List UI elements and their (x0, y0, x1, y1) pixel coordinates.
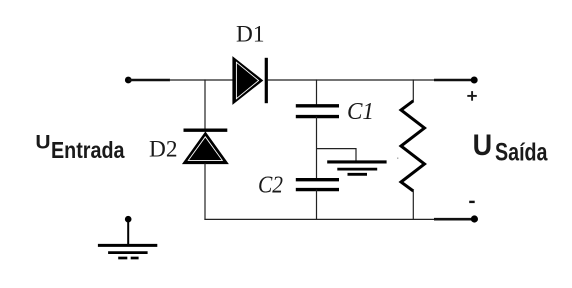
node: input terminal dot (125, 77, 132, 84)
node: output − terminal (471, 215, 478, 222)
capacitor C2 (296, 180, 339, 190)
label U_Saída (473, 129, 549, 167)
capacitor C1 (296, 106, 339, 117)
wire: D2 anode to bottom rail (204, 163, 206, 220)
wire: output lead bottom (thick) (434, 218, 474, 221)
ground: input reference (bottom left) (98, 216, 157, 258)
wire: capacitor branch from top rail (316, 79, 318, 104)
stray speck artifact (397, 158, 398, 159)
wire: bottom rail (204, 218, 435, 220)
svg-text:C2: C2 (258, 173, 283, 199)
svg-text:Saída: Saída (495, 139, 548, 167)
wire: resistor bottom lead (412, 191, 414, 220)
wire: mid ground connector (317, 149, 357, 161)
wire: C1 to C2 (316, 117, 318, 179)
wire: C2 to bottom rail (316, 190, 318, 220)
node: output + terminal (471, 77, 478, 84)
diode D1 (233, 58, 266, 103)
svg-text:U: U (473, 129, 493, 162)
label U_Entrada (35, 132, 124, 164)
wire: top rail, input to D1 anode (169, 79, 234, 81)
resistor R (load) (401, 101, 425, 191)
diode D2 (184, 130, 228, 163)
wire: D2 branch from top rail (204, 79, 206, 128)
svg-text:D1: D1 (236, 22, 265, 47)
label − (469, 201, 475, 203)
wire: resistor top lead (412, 79, 414, 101)
wire: input lead (thick) (128, 79, 170, 82)
svg-text:Entrada: Entrada (51, 137, 125, 163)
wire: top rail, D1 cathode to output (268, 79, 436, 81)
wire: output lead top (thick) (434, 79, 474, 82)
label + (467, 91, 477, 101)
svg-text:U: U (35, 132, 50, 154)
svg-text:C1: C1 (347, 99, 374, 125)
ground: mid reference (327, 162, 386, 174)
svg-text:D2: D2 (149, 136, 178, 161)
